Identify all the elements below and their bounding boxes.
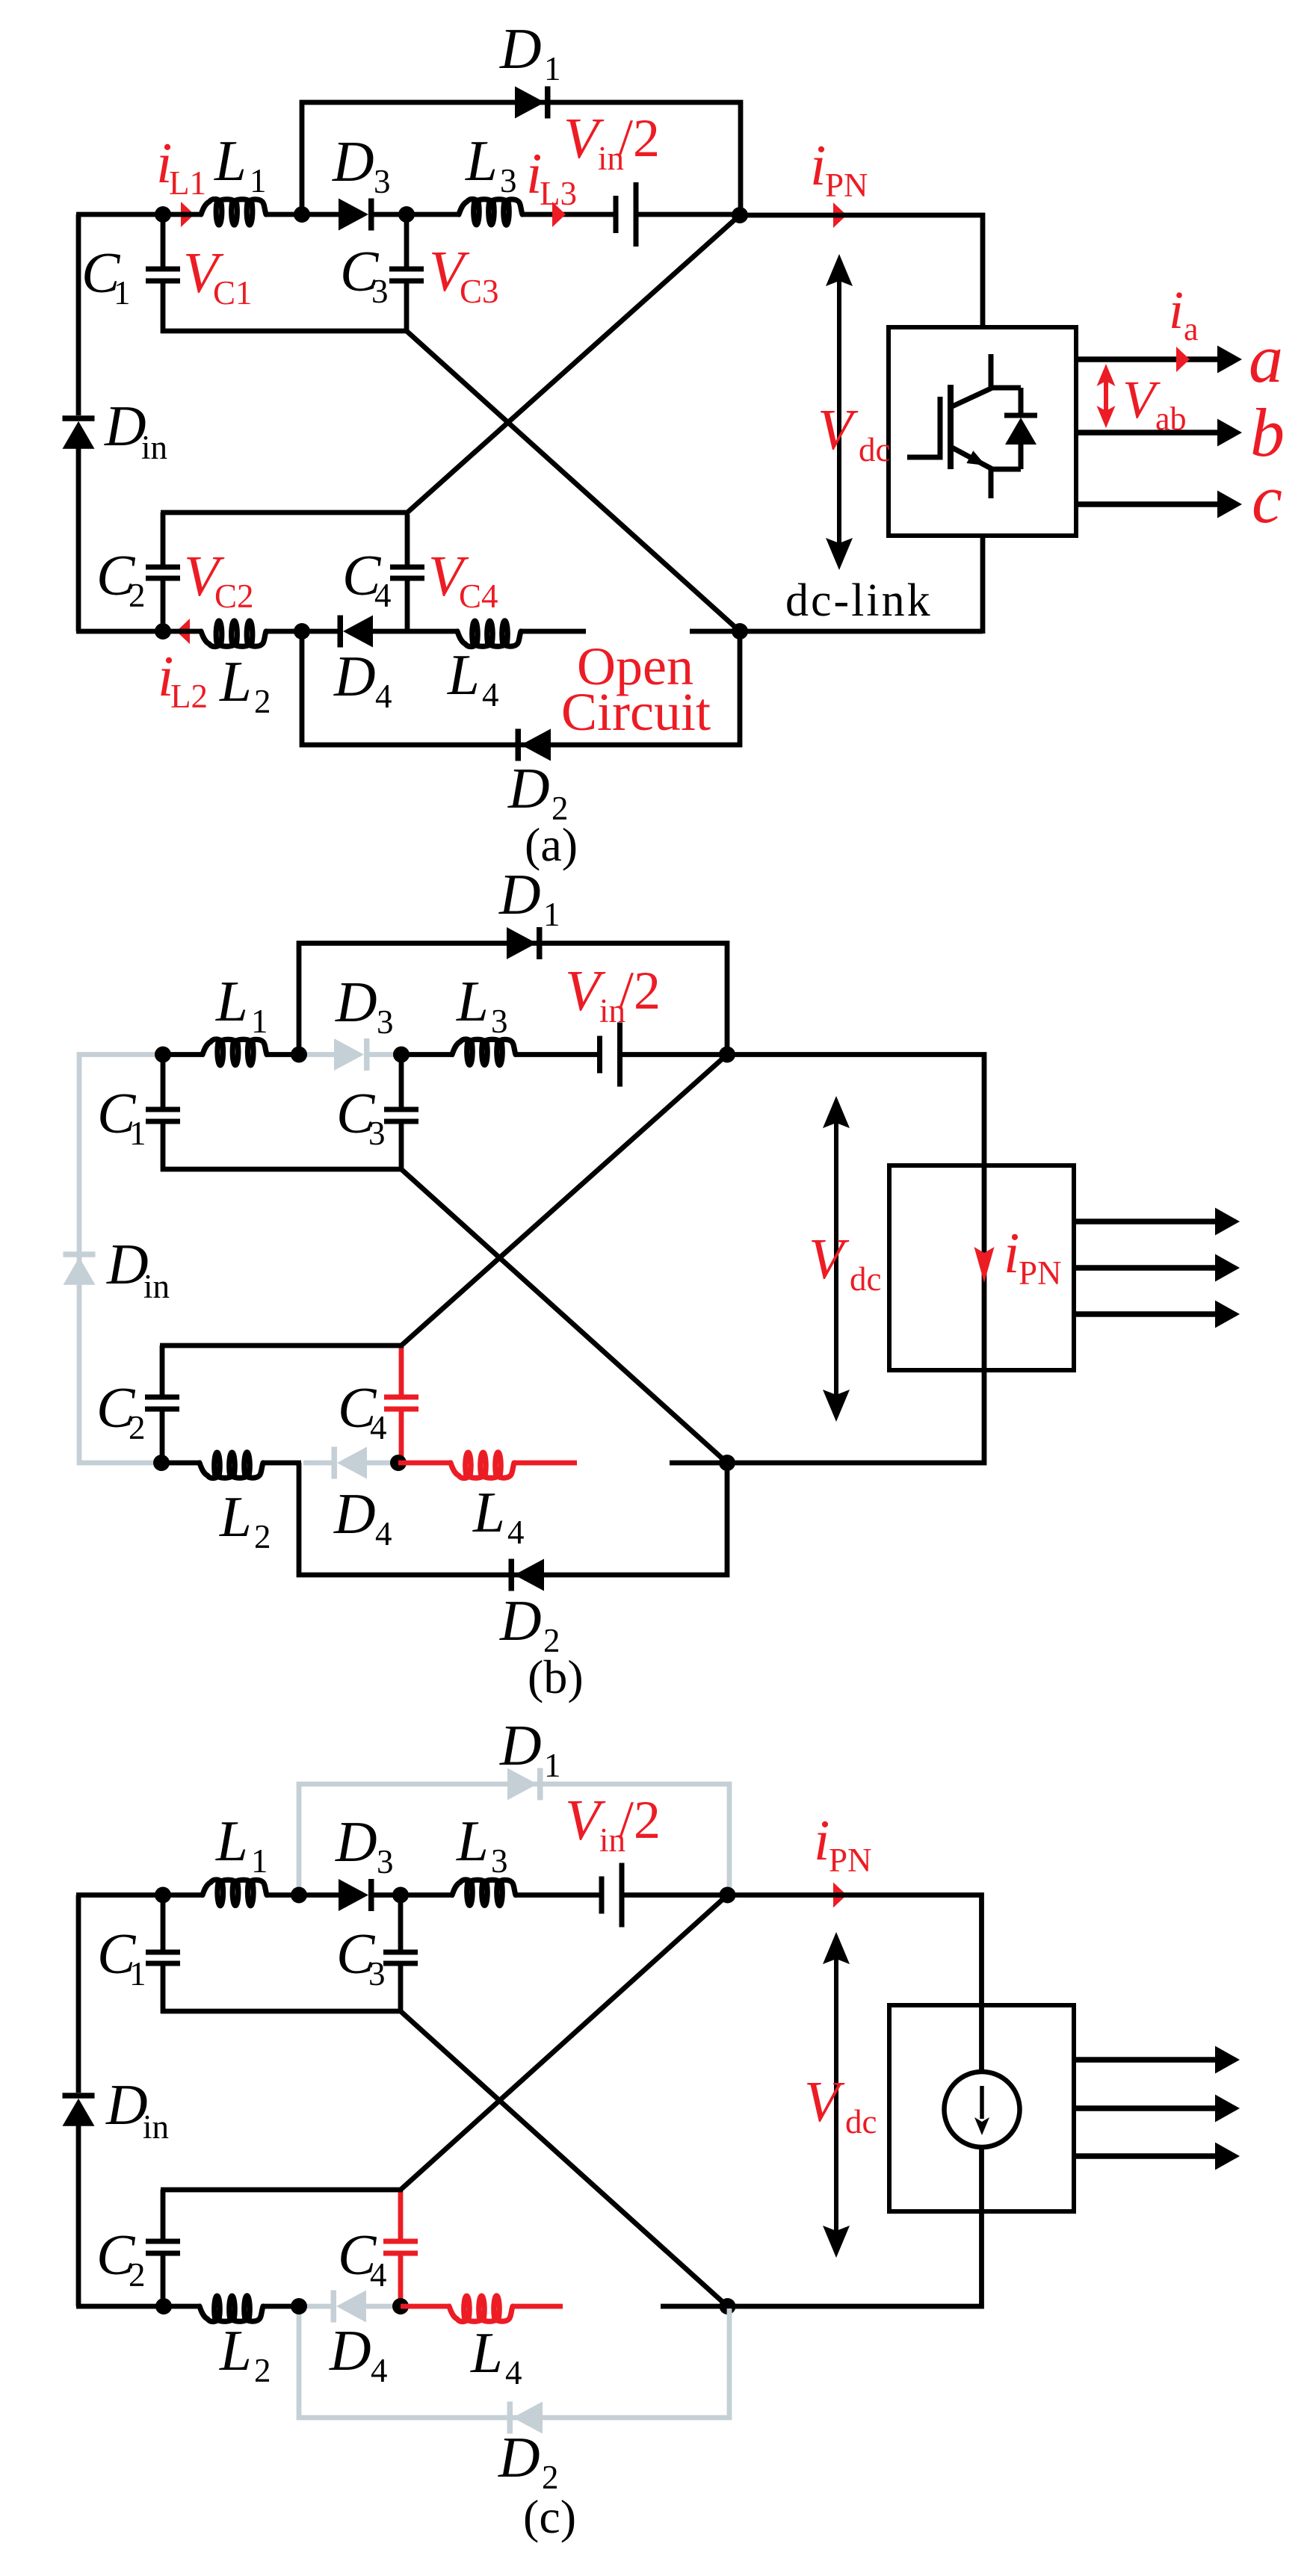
inductor L3 xyxy=(452,1039,516,1065)
svg-text:i: i xyxy=(1004,1221,1019,1285)
wire output phase c xyxy=(1076,501,1218,507)
svg-text:L: L xyxy=(470,2320,503,2385)
wire diagonal cross link up xyxy=(401,1055,727,1346)
node C3 tap xyxy=(392,1887,409,1904)
wire L4 open end xyxy=(521,629,586,634)
svg-text:L: L xyxy=(219,1484,252,1549)
wire bottom rail black segment xyxy=(661,2304,729,2309)
wire D3 to node xyxy=(368,212,407,217)
current arrow iL2 xyxy=(176,619,190,644)
svg-text:3: 3 xyxy=(368,1115,386,1152)
svg-text:D: D xyxy=(104,394,146,458)
capacitor C3 xyxy=(399,1055,404,1110)
wire iL1 segment xyxy=(163,212,202,217)
svg-text:1: 1 xyxy=(250,162,267,199)
diode D4 (inactive gray) xyxy=(299,2304,334,2309)
wire L1 to node xyxy=(267,1052,300,1057)
svg-text:i: i xyxy=(810,133,826,197)
svg-text:1: 1 xyxy=(544,1747,561,1784)
diode D1 xyxy=(515,87,545,119)
wire diagonal cross link up xyxy=(407,215,740,513)
wire L1 to node xyxy=(267,1892,300,1898)
svg-text:1: 1 xyxy=(251,1842,268,1880)
svg-text:2: 2 xyxy=(129,2256,146,2294)
svg-text:1: 1 xyxy=(251,1003,268,1040)
svg-text:4: 4 xyxy=(507,1514,525,1551)
svg-text:4: 4 xyxy=(371,2352,388,2389)
svg-text:/2: /2 xyxy=(619,1790,661,1850)
node C2 bottom tap xyxy=(155,623,171,640)
wire top rail left xyxy=(76,1892,163,1898)
capacitor C4 xyxy=(405,515,410,567)
svg-text:Circuit: Circuit xyxy=(561,682,711,742)
capacitor C3 xyxy=(404,214,410,269)
node top-left junction xyxy=(155,206,171,223)
svg-text:L: L xyxy=(219,649,252,713)
current arrow iPN (inside box) xyxy=(974,1247,995,1283)
svg-text:1: 1 xyxy=(114,274,131,312)
wire output phase b xyxy=(1074,2105,1216,2111)
svg-text:2: 2 xyxy=(129,1409,146,1446)
capacitor C4 (charging red) xyxy=(398,2191,404,2241)
node D2-branch tap xyxy=(291,2298,307,2315)
inductor L2 xyxy=(201,621,266,647)
svg-text:i: i xyxy=(1169,280,1184,340)
wire output phase a xyxy=(1076,356,1218,362)
svg-text:L3: L3 xyxy=(540,175,577,212)
wire output phase a xyxy=(1074,1219,1216,1224)
wire diagonal cross link down xyxy=(407,331,740,631)
svg-text:1: 1 xyxy=(543,896,560,933)
svg-text:a: a xyxy=(1249,321,1283,397)
svg-text:L: L xyxy=(215,969,248,1033)
svg-text:D: D xyxy=(499,1713,542,1777)
voltage source Vin/2 xyxy=(597,1036,602,1074)
capacitor C1 xyxy=(161,1055,166,1110)
wire L1 to node xyxy=(266,212,303,217)
svg-text:C4: C4 xyxy=(459,578,498,615)
svg-text:3: 3 xyxy=(377,1003,394,1041)
svg-text:D: D xyxy=(507,756,550,820)
wire L3 to battery xyxy=(516,1892,602,1898)
svg-text:4: 4 xyxy=(370,1409,387,1446)
node P (top dc-link) xyxy=(732,207,748,223)
diode Din xyxy=(63,415,95,421)
node top-left junction xyxy=(155,1047,171,1063)
wire left input rail xyxy=(76,214,81,415)
wire C1-C3 bottom link xyxy=(161,1167,404,1172)
svg-text:V: V xyxy=(804,2069,845,2134)
svg-text:D: D xyxy=(498,2425,540,2489)
inductor L1 xyxy=(203,1880,267,1906)
svg-text:D: D xyxy=(333,1481,376,1546)
svg-text:D: D xyxy=(498,862,541,926)
wire top rail left xyxy=(76,212,163,217)
wire output phase b xyxy=(1074,1265,1216,1271)
wire D4 to C4 xyxy=(373,629,408,634)
inductor L4 (fault current red) xyxy=(398,1461,452,1466)
inductor L1 xyxy=(203,1039,267,1065)
wire L3 segment xyxy=(401,1892,454,1898)
wire diagonal cross link down xyxy=(401,1169,727,1463)
wire diagonal cross link up xyxy=(401,1895,728,2190)
diode D3 xyxy=(299,1892,341,1898)
node C3 tap xyxy=(393,1047,410,1063)
inductor L4 (fault current red) xyxy=(401,2304,451,2309)
diode D2 xyxy=(521,729,551,761)
svg-text:C1: C1 xyxy=(213,274,253,312)
svg-text:3: 3 xyxy=(368,1955,386,1993)
wire L3 segment xyxy=(401,1052,454,1057)
svg-text:(c): (c) xyxy=(523,2490,576,2543)
voltage arrow Vdc xyxy=(834,1957,838,2233)
svg-text:2: 2 xyxy=(254,683,271,720)
node N (bottom dc-link) xyxy=(719,1455,735,1471)
node P (top dc-link) xyxy=(719,1047,735,1063)
wire top rail to inverter xyxy=(728,1895,982,2071)
wire D2 branch xyxy=(302,631,740,745)
wire D1 branch xyxy=(302,102,741,214)
svg-text:3: 3 xyxy=(374,163,391,200)
svg-text:C3: C3 xyxy=(460,273,499,310)
svg-text:D: D xyxy=(499,1588,542,1653)
wire C1-C3 bottom link xyxy=(161,2009,403,2014)
inverter box xyxy=(889,1165,1074,1370)
svg-text:in: in xyxy=(143,1268,170,1305)
voltage arrow Vab xyxy=(1104,379,1108,413)
svg-text:/2: /2 xyxy=(618,108,660,168)
svg-text:C2: C2 xyxy=(214,578,254,615)
svg-text:V: V xyxy=(809,1227,850,1291)
svg-text:2: 2 xyxy=(254,2352,271,2389)
current arrow iL1 xyxy=(181,202,194,227)
wire to L1 xyxy=(163,1892,203,1898)
diode D1 xyxy=(507,927,537,959)
capacitor C3 xyxy=(398,1895,404,1953)
svg-text:PN: PN xyxy=(1019,1254,1062,1292)
svg-text:L: L xyxy=(465,129,498,193)
svg-text:D: D xyxy=(105,2072,148,2137)
svg-text:D: D xyxy=(329,2318,371,2383)
svg-text:D: D xyxy=(332,129,374,193)
svg-text:dc: dc xyxy=(850,1260,881,1298)
svg-text:L: L xyxy=(219,2318,252,2383)
svg-text:3: 3 xyxy=(377,1843,394,1880)
node C3 tap xyxy=(398,206,415,223)
svg-text:4: 4 xyxy=(505,2354,522,2391)
wire left input rail xyxy=(76,1895,81,2093)
wire L2 to D2 elbow xyxy=(263,1461,301,1466)
voltage arrow Vdc xyxy=(837,279,841,545)
inductor L4 xyxy=(408,629,459,634)
capacitor C1 xyxy=(161,214,166,269)
wire D2 branch (inactive gray) xyxy=(299,2309,729,2418)
svg-text:PN: PN xyxy=(825,167,868,204)
current arrow iPN xyxy=(833,1883,847,1908)
node N (bottom dc-link) xyxy=(732,623,748,640)
node C2 bottom tap xyxy=(153,1455,170,1471)
svg-text:L: L xyxy=(447,643,480,707)
node N (bottom dc-link) xyxy=(720,2298,736,2315)
node C4 bottom tap xyxy=(390,1455,407,1471)
wire top rail to inverter xyxy=(727,1055,984,1464)
wire to L2 xyxy=(163,629,202,634)
svg-text:i: i xyxy=(814,1808,829,1872)
voltage source Vin/2 xyxy=(614,196,619,233)
current arrow ia xyxy=(1176,347,1190,372)
svg-text:L2: L2 xyxy=(170,678,208,715)
diode D3 xyxy=(302,212,340,217)
voltage arrow Vdc xyxy=(834,1121,838,1397)
wire top rail xyxy=(163,1052,203,1057)
diode D4 (inactive gray) xyxy=(303,1461,335,1466)
inverter box xyxy=(889,2005,1074,2211)
svg-text:L: L xyxy=(456,1809,489,1873)
wire output phase c xyxy=(1074,1311,1216,1317)
current arrow iPN xyxy=(833,202,847,228)
wire battery to node P xyxy=(636,212,740,217)
wire bottom rail right of gap xyxy=(690,629,983,634)
wire output phase b xyxy=(1076,430,1218,436)
wire C2-C4 top link xyxy=(160,1343,404,1349)
svg-text:4: 4 xyxy=(482,676,499,713)
inductor L3 xyxy=(452,1880,516,1906)
wire output phase a xyxy=(1074,2057,1216,2063)
wire bottom rail black segment xyxy=(670,1461,729,1466)
svg-text:dc-link: dc-link xyxy=(785,575,933,626)
svg-text:D: D xyxy=(335,970,377,1034)
wire D1 branch xyxy=(299,944,727,1055)
svg-text:L: L xyxy=(215,1809,248,1873)
wire L2 to node xyxy=(263,2304,300,2309)
wire diagonal cross link down xyxy=(401,2011,728,2306)
svg-text:L: L xyxy=(214,129,247,193)
diode D1 (inactive gray) xyxy=(507,1768,537,1801)
svg-text:L: L xyxy=(456,969,489,1033)
svg-text:a: a xyxy=(1184,311,1199,347)
wire bottom rail to inverter xyxy=(980,536,986,634)
svg-text:D: D xyxy=(333,644,376,708)
diode D3 (inactive gray) xyxy=(300,1052,336,1057)
capacitor C2 xyxy=(161,2190,166,2241)
wire bottom rail left xyxy=(76,629,163,634)
wire to L2 xyxy=(161,1461,201,1466)
node top-left junction xyxy=(155,1887,171,1904)
capacitor C2 xyxy=(160,1346,165,1397)
diode D2 (inactive gray) xyxy=(513,2402,543,2434)
wire bottom rail left xyxy=(76,2304,163,2309)
node D1-branch tap xyxy=(291,1887,307,1904)
inductor L2 xyxy=(200,2296,263,2322)
node D2-branch tap xyxy=(294,623,310,640)
diode D4 xyxy=(302,629,338,634)
wire L3 to battery xyxy=(522,212,616,217)
voltage source Vin/2 xyxy=(599,1877,605,1914)
inductor L2 xyxy=(200,1452,263,1479)
inverter box xyxy=(889,327,1076,536)
current source arrow xyxy=(980,2086,984,2119)
svg-text:4: 4 xyxy=(374,577,392,614)
capacitor C4 (charging red) xyxy=(399,1347,404,1397)
node D1-branch tap xyxy=(291,1047,307,1063)
inductor L1 xyxy=(201,199,266,225)
wire output phase c xyxy=(1074,2153,1216,2159)
node D1-branch tap xyxy=(294,206,310,223)
svg-text:1: 1 xyxy=(129,1115,146,1152)
svg-text:4: 4 xyxy=(375,1515,392,1552)
current arrow iL3 xyxy=(552,202,566,227)
svg-text:2: 2 xyxy=(254,1518,271,1555)
svg-text:dc: dc xyxy=(859,431,890,468)
wire source to bottom rail xyxy=(728,2149,982,2306)
svg-text:in: in xyxy=(141,429,167,466)
wire C2-C4 top link xyxy=(161,510,410,515)
diode D2 xyxy=(514,1559,544,1591)
inverter IGBT switch symbol xyxy=(907,455,940,460)
svg-text:2: 2 xyxy=(129,577,146,614)
svg-text:3: 3 xyxy=(500,162,517,199)
svg-text:3: 3 xyxy=(491,1003,508,1040)
svg-text:1: 1 xyxy=(544,50,561,87)
svg-text:dc: dc xyxy=(845,2103,877,2140)
svg-text:L1: L1 xyxy=(169,164,206,202)
wire battery to node P xyxy=(622,1892,728,1898)
wire top rail to inverter xyxy=(740,215,983,327)
svg-text:4: 4 xyxy=(375,678,392,715)
svg-text:/2: /2 xyxy=(619,961,661,1021)
wire L3 to battery xyxy=(516,1052,599,1057)
wire D1 branch (inactive gray) xyxy=(299,1784,729,1893)
svg-text:D: D xyxy=(106,1232,149,1296)
svg-text:(b): (b) xyxy=(528,1650,584,1703)
wire C1-C3 bottom link xyxy=(161,329,409,334)
wire C2-C4 top link xyxy=(161,2188,403,2193)
node C2 bottom tap xyxy=(155,2298,172,2315)
inductor L3 xyxy=(459,199,522,225)
svg-text:4: 4 xyxy=(370,2256,387,2294)
svg-text:b: b xyxy=(1250,394,1285,471)
wire D3 to node xyxy=(368,1892,401,1898)
current source circle xyxy=(945,2072,1020,2147)
wire L3 segment xyxy=(407,212,460,217)
svg-text:c: c xyxy=(1252,461,1282,537)
node P (top dc-link) xyxy=(720,1887,736,1904)
wire left input rail (inactive gray) xyxy=(79,1055,163,1464)
svg-text:1: 1 xyxy=(129,1955,146,1993)
svg-text:3: 3 xyxy=(371,273,389,310)
wire battery to node P xyxy=(620,1052,728,1057)
svg-text:in: in xyxy=(143,2108,169,2146)
wire L2 to node xyxy=(266,629,303,634)
svg-text:D: D xyxy=(335,1809,377,1874)
wire to L2 xyxy=(164,2304,201,2309)
diode Din (inactive gray) xyxy=(64,1251,96,1257)
node C4 bottom tap xyxy=(392,2298,409,2315)
capacitor C2 xyxy=(161,513,166,567)
wire D2 branch xyxy=(299,1463,727,1575)
capacitor C1 xyxy=(161,1895,166,1953)
svg-text:D: D xyxy=(499,16,542,81)
svg-text:3: 3 xyxy=(491,1842,508,1880)
svg-text:V: V xyxy=(818,397,859,462)
svg-text:L: L xyxy=(472,1480,505,1544)
svg-text:PN: PN xyxy=(829,1842,872,1879)
diode Din xyxy=(63,2093,95,2099)
